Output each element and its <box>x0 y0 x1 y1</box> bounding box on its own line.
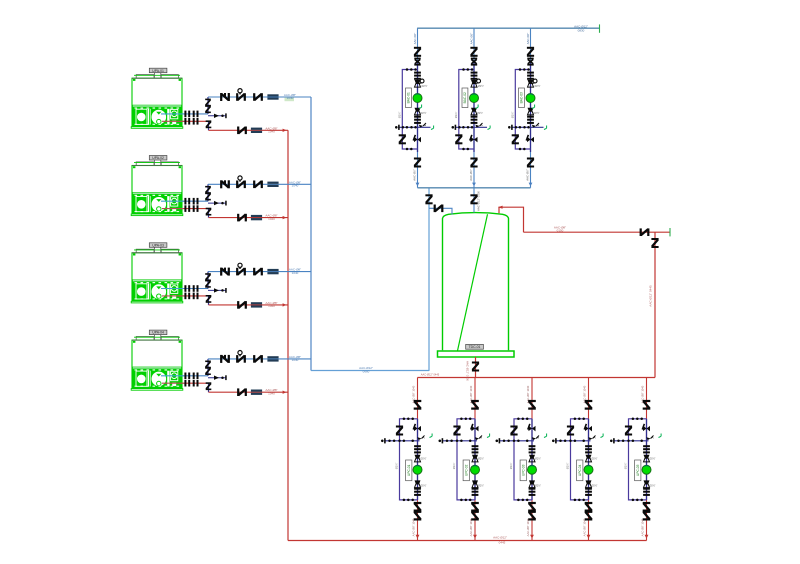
svg-text:Ø2½”: Ø2½” <box>422 84 428 88</box>
label BAC-02 <box>462 88 468 108</box>
pump branch UPC-01 <box>411 378 417 541</box>
strainer chiller 4 return <box>251 388 287 395</box>
strainer chiller 1 return <box>251 126 287 133</box>
valve UPC-04 outlet isolation <box>585 510 593 521</box>
svg-text:AAC-Ø12” 0100: AAC-Ø12” 0100 <box>477 191 481 211</box>
wire secondary supply header top <box>417 24 599 32</box>
valve BAC-02 discharge isolation <box>470 47 477 57</box>
bypass loop BAC-03 <box>510 68 530 150</box>
wire red return main vertical <box>287 130 289 540</box>
drain junction BAC-02 <box>452 123 491 130</box>
valve BAC-01 suction diag <box>413 135 421 143</box>
svg-text:Ø2½”: Ø2½” <box>650 457 656 461</box>
valve BAC-02 suction isolation <box>469 158 478 181</box>
flexible connector UPC-03 bottom <box>529 488 536 496</box>
valve UPC-03 diag <box>527 424 535 432</box>
flexible connector BAC-03 top <box>527 72 534 80</box>
valve UPC-05 outlet isolation <box>643 510 651 521</box>
svg-text:Ø1¼”: Ø1¼” <box>452 463 456 470</box>
svg-text:AAC-Ø6”: AAC-Ø6” <box>413 33 417 44</box>
valve BAC-03 discharge isolation <box>527 47 534 57</box>
svg-text:0660: 0660 <box>363 369 370 373</box>
wire blue supply main horizontal <box>311 366 429 373</box>
valve BAC-01 suction isolation <box>413 158 422 181</box>
wire chiller 3 return inlet (red) <box>158 296 288 305</box>
wire tank top-left inlet <box>429 208 452 214</box>
reducer UPC-02 top <box>472 455 484 462</box>
flexible connector UPC-03 top <box>529 445 536 453</box>
valve chiller 1 lower manifold <box>206 120 212 128</box>
svg-text:AAC-Ø8” 1040: AAC-Ø8” 1040 <box>411 518 415 536</box>
svg-text:0150: 0150 <box>557 229 564 233</box>
svg-text:Ø2½”: Ø2½” <box>421 111 427 115</box>
svg-text:Ø1¼”: Ø1¼” <box>566 463 570 470</box>
valve chiller 4 return isolation <box>237 388 247 396</box>
valve motorised chiller 2 supply <box>236 176 246 188</box>
svg-text:BAC-02: BAC-02 <box>463 92 467 103</box>
strainer chiller 3 return <box>251 301 287 308</box>
svg-text:Ø1¼”: Ø1¼” <box>624 463 628 470</box>
pump UPC-05 <box>642 465 651 474</box>
valve chiller 1 supply isolation <box>253 93 263 101</box>
check valve UPC-01 <box>414 502 422 512</box>
check valve BAC-01 <box>414 58 420 66</box>
svg-text:1040: 1040 <box>268 391 275 395</box>
check valve BAC-03 <box>527 58 533 66</box>
svg-text:AAC-Ø6”: AAC-Ø6” <box>413 169 417 180</box>
check valve chiller 4 supply <box>220 355 230 363</box>
valve UPC-02 outlet isolation <box>471 510 479 521</box>
wire tank top-center stub <box>474 188 481 213</box>
reducer UPC-01 top <box>415 455 427 462</box>
node supply continuation tick <box>599 24 601 32</box>
svg-text:UPC-03: UPC-03 <box>522 464 526 476</box>
node flow arrow BAC-02 <box>472 183 476 187</box>
valve riser isolation <box>425 194 432 204</box>
label TDC-01 <box>466 344 484 349</box>
reducer UPC-04 bottom <box>586 480 598 487</box>
wire red primary-return header <box>418 372 656 377</box>
svg-text:Ø2½”: Ø2½” <box>421 484 427 488</box>
node flow arrow UPC-05 <box>645 535 649 539</box>
check valve UPC-04 <box>585 502 593 512</box>
svg-text:AAC-Ø8” 1040: AAC-Ø8” 1040 <box>526 518 530 536</box>
chiller UPA-01 <box>131 73 183 129</box>
node return continuation tick <box>669 228 671 236</box>
svg-text:UPA-02: UPA-02 <box>152 156 164 160</box>
reducer UPC-03 top <box>529 455 541 462</box>
valve motorised chiller 1 supply <box>236 89 246 101</box>
svg-text:Ø2½”: Ø2½” <box>421 457 427 461</box>
reducer BAC-01 suction <box>415 105 427 116</box>
valve chiller 4 manifold vent <box>205 361 211 376</box>
valve chiller 3 lower manifold <box>206 295 212 303</box>
flexible connectors chiller 2 <box>184 198 198 212</box>
valve tank top-left <box>434 205 444 213</box>
svg-text:Ø1¼”: Ø1¼” <box>454 112 458 119</box>
valve chiller 1 return isolation <box>237 127 247 135</box>
strainer chiller 3 supply <box>267 268 301 275</box>
flexible connector UPC-01 bottom <box>414 488 421 496</box>
svg-text:UPC-01: UPC-01 <box>407 464 411 476</box>
wire tank bottom stub <box>466 357 476 381</box>
label BAC-03 <box>519 88 525 108</box>
svg-text:AAC-Ø8” 1040: AAC-Ø8” 1040 <box>582 518 586 536</box>
svg-text:AAC-Ø8” 1040: AAC-Ø8” 1040 <box>640 518 644 536</box>
flexible connectors chiller 1 <box>184 111 198 125</box>
svg-text:1040: 1040 <box>268 217 275 221</box>
label UPA-03 <box>149 243 167 248</box>
flexible connector BAC-03 bottom <box>527 116 534 124</box>
wire red right riser <box>649 232 656 377</box>
node flow arrow UPC-04 <box>587 535 591 539</box>
svg-text:Ø1¼”: Ø1¼” <box>397 112 401 119</box>
check valve chiller 1 supply <box>220 93 230 101</box>
bypass loop BAC-01 <box>397 68 417 150</box>
svg-text:1040: 1040 <box>268 130 275 134</box>
flexible connectors chiller 4 <box>184 373 198 387</box>
check valve UPC-02 <box>471 502 479 512</box>
valve tank top-center <box>470 194 477 204</box>
pump branch BAC-03 <box>526 28 531 188</box>
chiller UPA-04 <box>131 335 183 391</box>
svg-text:BAC-01: BAC-01 <box>407 92 411 103</box>
valve chiller 2 return isolation <box>237 214 247 222</box>
tank TDC-01 <box>438 213 515 357</box>
label BAC-01 <box>406 88 412 108</box>
valve BAC-02 suction diag <box>469 135 477 143</box>
wire chiller 4 return inlet (red) <box>158 383 288 392</box>
pump UPC-02 <box>471 465 480 474</box>
svg-text:1040: 1040 <box>292 358 299 362</box>
wire red building return run <box>524 225 671 232</box>
reducer UPC-05 bottom <box>644 480 656 487</box>
valve UPC-01 diag <box>413 424 421 432</box>
svg-text:Ø2½”: Ø2½” <box>592 484 598 488</box>
check valve chiller 3 supply <box>220 268 230 276</box>
svg-text:Ø2½”: Ø2½” <box>478 484 484 488</box>
pump BAC-03 <box>526 94 535 103</box>
svg-text:UPA-04: UPA-04 <box>152 331 164 335</box>
chiller UPA-03 <box>131 247 183 303</box>
label UPC-01 <box>406 460 412 481</box>
drain tee chiller 4 <box>208 375 227 380</box>
svg-text:AAC-Ø12” 0100: AAC-Ø12” 0100 <box>466 361 470 381</box>
svg-text:Ø2½”: Ø2½” <box>478 457 484 461</box>
valve motorised chiller 3 supply <box>236 263 246 275</box>
valve UPC-03 outlet isolation <box>528 510 536 521</box>
pump branch UPC-02 <box>469 378 475 541</box>
bypass loop UPC-03 <box>509 418 532 502</box>
bypass loop UPC-05 <box>624 418 647 502</box>
node flow arrow UPC-01 <box>416 535 420 539</box>
reducer and gauge BAC-02 <box>471 79 484 88</box>
valve chiller 2 lower manifold <box>206 208 212 216</box>
wire blue riser to secondary header <box>428 188 430 371</box>
svg-text:UPC-05: UPC-05 <box>636 464 640 476</box>
reducer and gauge BAC-03 <box>528 79 541 88</box>
svg-text:Ø1¼”: Ø1¼” <box>509 463 513 470</box>
valve BAC-01 discharge isolation <box>414 47 421 57</box>
valve right riser top <box>651 238 658 248</box>
wire chiller 2 return inlet (red) <box>158 209 288 218</box>
valve UPC-02 diag <box>470 424 478 432</box>
drain junction BAC-01 <box>395 123 434 130</box>
flexible connector UPC-02 bottom <box>472 488 479 496</box>
svg-text:Ø2½”: Ø2½” <box>477 111 483 115</box>
check valve UPC-03 <box>528 502 536 512</box>
valve UPC-05 diag <box>642 424 650 432</box>
wire secondary suction header <box>418 187 531 189</box>
valve motorised chiller 4 supply <box>236 351 246 363</box>
svg-text:AAC-Ø6”: AAC-Ø6” <box>469 169 473 180</box>
label UPC-02 <box>463 460 469 481</box>
label UPC-03 <box>520 460 526 481</box>
flexible connector UPC-01 top <box>414 445 421 453</box>
svg-text:1040: 1040 <box>292 271 299 275</box>
flexible connector BAC-01 bottom <box>414 116 421 124</box>
valve chiller 2 manifold vent <box>205 186 211 201</box>
svg-text:Ø2½”: Ø2½” <box>478 84 484 88</box>
svg-text:AAC-Ø6”: AAC-Ø6” <box>526 169 530 180</box>
drain tee chiller 2 <box>208 201 227 206</box>
drain junction UPC-03 <box>496 434 547 444</box>
wire chiller 4 evaporator outlet (blue) <box>158 359 311 376</box>
reducer UPC-03 bottom <box>529 480 541 487</box>
strainer chiller 2 supply <box>267 180 301 187</box>
node flow arrow UPC-03 <box>530 535 534 539</box>
chiller UPA-02 <box>131 160 183 216</box>
svg-text:Ø2½”: Ø2½” <box>535 84 541 88</box>
valve UPC-01 inlet isolation <box>414 400 422 410</box>
flexible connectors chiller 3 <box>184 285 198 299</box>
wire red tank top outlet <box>498 206 524 233</box>
label UPC-05 <box>635 460 641 481</box>
node flow arrow BAC-01 <box>416 183 420 187</box>
valve UPC-05 inlet isolation <box>643 400 651 410</box>
valve chiller 2 supply isolation <box>253 181 263 189</box>
svg-text:0445: 0445 <box>499 541 506 545</box>
svg-text:1040: 1040 <box>268 304 275 308</box>
wire blue supply main vertical <box>310 97 312 371</box>
strainer chiller 4 supply <box>267 355 301 362</box>
label UPA-04 <box>149 330 167 335</box>
bypass loop UPC-04 <box>566 418 589 502</box>
valve chiller 3 supply isolation <box>253 268 263 276</box>
wire chiller 1 evaporator outlet (blue) <box>158 97 311 114</box>
drain junction UPC-05 <box>610 434 661 444</box>
svg-text:Ø2½”: Ø2½” <box>650 484 656 488</box>
check valve BAC-02 <box>471 58 477 66</box>
valve UPC-02 inlet isolation <box>471 400 479 410</box>
svg-text:UPC-02: UPC-02 <box>465 464 469 476</box>
svg-text:AAC-Ø12”: AAC-Ø12” <box>493 536 507 540</box>
svg-text:1040: 1040 <box>287 96 294 100</box>
pump UPC-01 <box>413 465 422 474</box>
svg-text:AAC-Ø6”: AAC-Ø6” <box>469 33 473 44</box>
wire chiller 3 evaporator outlet (blue) <box>158 272 311 289</box>
flexible connector UPC-02 top <box>472 445 479 453</box>
svg-text:Ø2½”: Ø2½” <box>534 111 540 115</box>
valve chiller 4 supply isolation <box>253 355 263 363</box>
drain tee chiller 3 <box>208 288 227 293</box>
reducer UPC-05 top <box>644 455 656 462</box>
flexible connector UPC-05 bottom <box>643 488 650 496</box>
flexible connector BAC-01 top <box>414 72 421 80</box>
svg-text:Ø1¼”: Ø1¼” <box>395 463 399 470</box>
reducer BAC-03 suction <box>528 105 540 116</box>
pump BAC-02 <box>470 94 479 103</box>
valve BAC-03 suction diag <box>526 135 534 143</box>
reducer UPC-01 bottom <box>415 480 427 487</box>
svg-text:Ø2½”: Ø2½” <box>535 484 541 488</box>
reducer and gauge BAC-01 <box>415 79 428 88</box>
svg-text:AAC-Ø8” 1040: AAC-Ø8” 1040 <box>469 518 473 536</box>
reducer UPC-02 bottom <box>472 480 484 487</box>
svg-text:UPC-04: UPC-04 <box>578 464 582 476</box>
check valve UPC-05 <box>643 502 651 512</box>
valve chiller 3 manifold vent <box>205 273 211 287</box>
flexible connector UPC-04 top <box>585 445 592 453</box>
check valve chiller 2 supply <box>220 180 230 188</box>
svg-text:UPA-03: UPA-03 <box>152 243 164 247</box>
svg-text:AAC-Ø12” 0445: AAC-Ø12” 0445 <box>421 372 440 376</box>
drain junction BAC-03 <box>508 123 547 130</box>
drain tee chiller 1 <box>208 113 227 118</box>
flexible connector BAC-02 bottom <box>471 116 478 124</box>
svg-text:TDC-01: TDC-01 <box>469 345 481 349</box>
pump UPC-03 <box>528 465 537 474</box>
flexible connector UPC-05 top <box>643 445 650 453</box>
label UPA-01 <box>149 68 167 73</box>
svg-text:1040: 1040 <box>292 184 299 188</box>
bypass loop UPC-02 <box>452 418 475 502</box>
pump branch BAC-01 <box>413 28 418 188</box>
valve UPC-04 inlet isolation <box>585 400 593 410</box>
valve BAC-03 suction isolation <box>526 158 535 181</box>
drain junction UPC-01 <box>381 434 432 444</box>
reducer BAC-02 suction <box>471 105 483 116</box>
flexible connector UPC-04 bottom <box>585 488 592 496</box>
wire chiller 1 return inlet (red) <box>158 121 288 130</box>
pump branch BAC-02 <box>469 28 474 188</box>
wire red bottom header <box>288 536 647 545</box>
node flow arrow BAC-03 <box>529 183 533 187</box>
valve chiller 4 lower manifold <box>206 382 212 390</box>
strainer chiller 1 supply <box>267 93 296 101</box>
svg-text:AAC-Ø6”: AAC-Ø6” <box>526 33 530 44</box>
valve tank bottom <box>472 362 479 372</box>
svg-text:Ø2½”: Ø2½” <box>592 457 598 461</box>
svg-text:Ø2½”: Ø2½” <box>535 457 541 461</box>
strainer chiller 2 return <box>251 214 287 221</box>
valve chiller 1 manifold vent <box>205 99 211 114</box>
pump UPC-04 <box>584 465 593 474</box>
pump branch UPC-03 <box>526 378 532 541</box>
reducer UPC-04 top <box>586 455 598 462</box>
valve UPC-03 inlet isolation <box>528 400 536 410</box>
valve chiller 3 return isolation <box>237 301 247 309</box>
svg-text:0830: 0830 <box>578 29 585 33</box>
svg-text:BAC-03: BAC-03 <box>520 92 524 103</box>
flexible connector BAC-02 top <box>471 72 478 80</box>
pump BAC-01 <box>413 94 422 103</box>
drain junction UPC-02 <box>439 434 490 444</box>
svg-text:UPA-01: UPA-01 <box>152 69 164 73</box>
valve return-run isolation <box>640 228 650 236</box>
bypass loop UPC-01 <box>395 418 418 502</box>
wire chiller 2 evaporator outlet (blue) <box>158 184 311 201</box>
pump branch UPC-04 <box>582 378 588 541</box>
valve UPC-04 diag <box>584 424 592 432</box>
pump branch UPC-05 <box>640 378 646 541</box>
bypass loop BAC-02 <box>454 68 474 150</box>
drain junction UPC-04 <box>552 434 603 444</box>
valve UPC-01 outlet isolation <box>414 510 422 521</box>
label UPC-04 <box>577 460 583 481</box>
label UPA-02 <box>149 156 167 161</box>
svg-text:AAC-Ø12” 0445: AAC-Ø12” 0445 <box>649 285 653 307</box>
node flow arrow UPC-02 <box>473 535 477 539</box>
svg-text:Ø1¼”: Ø1¼” <box>510 112 514 119</box>
